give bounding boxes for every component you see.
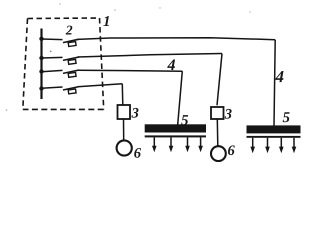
svg-text:5: 5 (181, 113, 189, 129)
svg-text:2: 2 (65, 22, 73, 37)
svg-text:6: 6 (134, 146, 142, 162)
svg-text:5: 5 (282, 110, 290, 126)
svg-text:3: 3 (224, 107, 232, 123)
svg-text:4: 4 (167, 57, 176, 74)
svg-text:6: 6 (227, 143, 235, 159)
svg-text:1: 1 (103, 14, 111, 30)
svg-text:4: 4 (275, 67, 285, 86)
svg-text:3: 3 (131, 105, 139, 121)
